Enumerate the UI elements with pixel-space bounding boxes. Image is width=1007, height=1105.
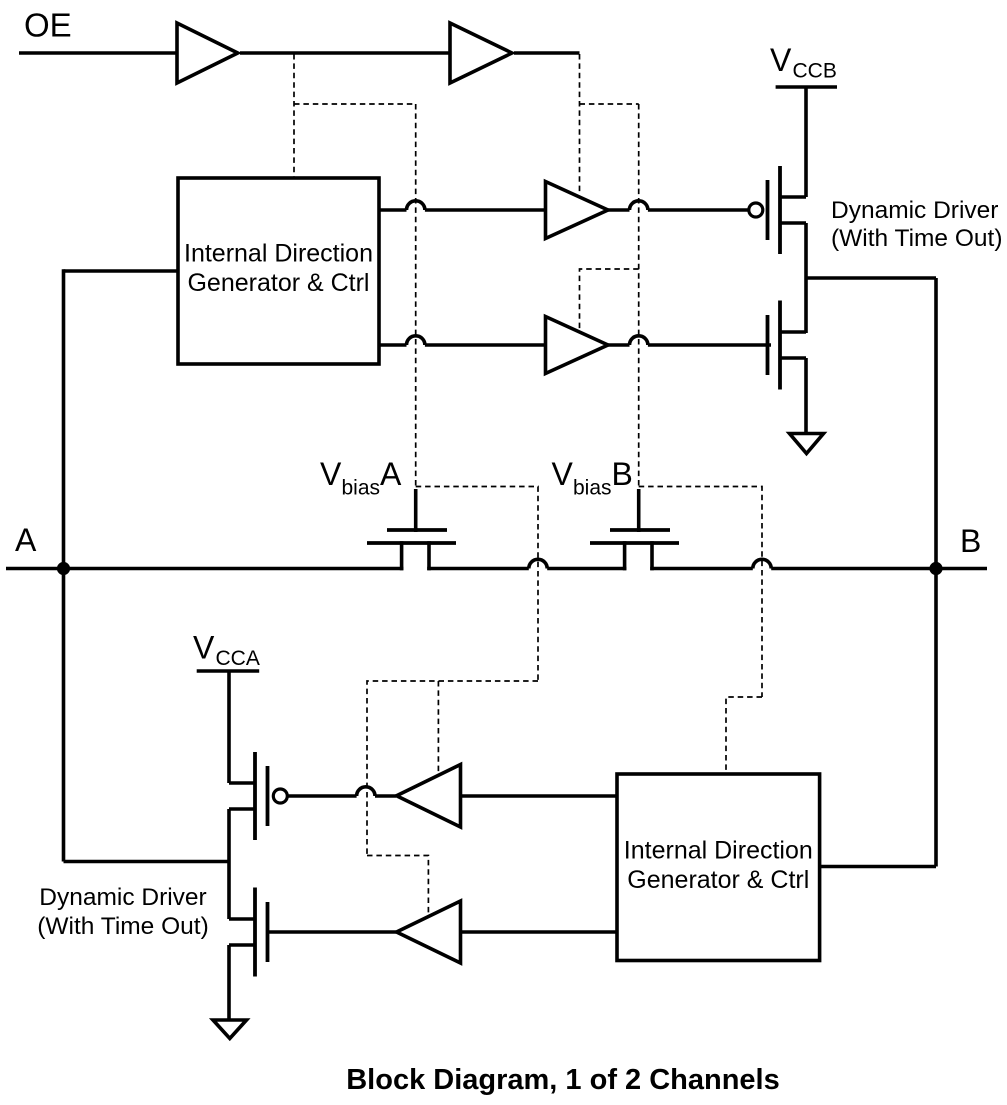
wire row1 to Q1 gate bubble bbox=[648, 208, 749, 212]
transistor Q3 PMOS (A-side pull-up) bbox=[273, 789, 287, 803]
wire A column vertical bbox=[62, 269, 66, 861]
wire Q3 gate bubble to buffer U5 bbox=[288, 794, 357, 798]
wire box2 to buffer U6 bbox=[461, 930, 618, 934]
box2 Internal Direction Generator & Ctrl (bottom-right) bbox=[617, 774, 820, 961]
buffer U4 (row2) bbox=[546, 317, 609, 374]
wire main A-B segment 4 bbox=[650, 567, 753, 571]
wire hop row1 over VbiasB column bbox=[630, 201, 648, 210]
wire row2 to Q2 gate bbox=[648, 343, 771, 347]
wire box2 to buffer U5 bbox=[461, 794, 618, 798]
wire hop row1 over VbiasA column bbox=[407, 201, 425, 210]
wire A column to mid node bbox=[64, 860, 230, 864]
dashed wire VbiasB jog down bbox=[639, 487, 762, 698]
wire main A-B segment 5 bbox=[771, 567, 987, 571]
svg-text:V: V bbox=[770, 42, 792, 78]
wire buffer2 output bbox=[514, 51, 580, 55]
wire Q3 source to mid node bbox=[227, 809, 231, 919]
wire box1 left to A column bbox=[64, 269, 179, 273]
wire box2 right to B column bbox=[820, 865, 936, 869]
wire buffer1 to buffer2 bbox=[240, 51, 450, 55]
transistor Q5 pass FET A (VbiasA) bbox=[400, 541, 404, 570]
svg-text:V: V bbox=[320, 456, 342, 492]
dashed wire to box2 top bbox=[726, 697, 762, 773]
ground (B side) bbox=[790, 434, 824, 454]
buffer U3 (row1) bbox=[546, 182, 609, 239]
svg-text:CCB: CCB bbox=[793, 60, 837, 83]
wire main A-B segment 1 bbox=[6, 567, 403, 571]
svg-text:bias: bias bbox=[573, 477, 612, 500]
box1 Internal Direction Generator & Ctrl (top-left) bbox=[178, 178, 379, 364]
transistor Q2 NMOS (B-side pull-down) bbox=[766, 315, 770, 375]
dashed wire VbiasA jog down bbox=[416, 487, 538, 682]
svg-text:Block Diagram, 1 of 2 Channels: Block Diagram, 1 of 2 Channels bbox=[346, 1064, 780, 1096]
dashed wire OE end down to buffer U3 bbox=[579, 54, 581, 194]
wire box1 row2 output bbox=[379, 343, 407, 347]
wire hop row2 over VbiasA column bbox=[407, 336, 425, 345]
dashed wire jog3 to buffers A-side bbox=[367, 681, 538, 856]
svg-text:A: A bbox=[380, 456, 402, 492]
svg-text:OE: OE bbox=[24, 7, 72, 44]
dashed wire OE to box1 top bbox=[293, 54, 295, 177]
dashed wire VbiasB column bbox=[638, 104, 640, 487]
dashed wire jog4 to buffer U6 bbox=[367, 856, 428, 916]
wire row1 to buffer U3 bbox=[425, 208, 630, 212]
wire box1 row1 output bbox=[379, 208, 407, 212]
dashed wire jog to VbiasB column bbox=[580, 103, 639, 105]
svg-text:(With Time Out): (With Time Out) bbox=[831, 225, 1003, 252]
wire OE input bbox=[19, 51, 177, 55]
svg-text:Internal Direction: Internal Direction bbox=[184, 240, 373, 268]
wire Q4 source to ground bbox=[227, 945, 231, 1021]
junction dot A bbox=[57, 562, 70, 575]
svg-text:V: V bbox=[552, 456, 574, 492]
svg-text:bias: bias bbox=[342, 477, 381, 500]
svg-text:Generator & Ctrl: Generator & Ctrl bbox=[187, 269, 369, 297]
transistor Q4 NMOS (A-side pull-down) bbox=[266, 902, 270, 962]
buffer U5 (A-side row3, points left) bbox=[397, 765, 461, 828]
wire main A-B segment 2 bbox=[427, 567, 529, 571]
wire row2 to buffer U4 bbox=[425, 343, 630, 347]
buffer U6 (A-side row4, points left) bbox=[397, 901, 461, 963]
svg-text:B: B bbox=[612, 456, 633, 492]
wire hop main over VbiasA dashed bbox=[529, 559, 547, 568]
svg-text:B: B bbox=[960, 523, 981, 559]
power VCCA rail bbox=[197, 669, 260, 673]
dashed wire VbiasA column bbox=[415, 104, 417, 487]
buffer U1 (OE first) bbox=[177, 23, 238, 83]
junction dot B bbox=[929, 562, 942, 575]
wire main A-B segment 3 bbox=[547, 567, 626, 571]
wire VCCA to Q3 drain bbox=[227, 671, 231, 783]
svg-text:CCA: CCA bbox=[216, 647, 260, 670]
wire hop row2 over VbiasB column bbox=[630, 336, 648, 345]
svg-text:Dynamic Driver: Dynamic Driver bbox=[39, 884, 206, 911]
wire Q1 source to mid node bbox=[804, 223, 808, 333]
wire Q4 gate to buffer U6 bbox=[266, 930, 396, 934]
svg-text:Internal Direction: Internal Direction bbox=[624, 837, 813, 865]
transistor Q1 PMOS (B-side pull-up) bbox=[749, 203, 763, 217]
ground (A side) bbox=[213, 1020, 247, 1039]
transistor Q6 pass FET B (VbiasB) bbox=[623, 541, 627, 570]
wire VCCB to Q1 drain bbox=[804, 87, 808, 197]
svg-text:A: A bbox=[15, 522, 37, 558]
svg-text:(With Time Out): (With Time Out) bbox=[37, 913, 209, 940]
svg-text:Generator & Ctrl: Generator & Ctrl bbox=[627, 866, 809, 894]
buffer U2 (OE second) bbox=[450, 23, 512, 83]
wire Q2 source to ground bbox=[804, 358, 808, 434]
power VCCB rail bbox=[776, 85, 837, 89]
dashed wire jog to VbiasA column bbox=[294, 103, 416, 105]
svg-text:Dynamic Driver: Dynamic Driver bbox=[831, 197, 998, 224]
wire hop Q3 gate over dashed bbox=[357, 787, 375, 796]
wire B column vertical bbox=[934, 278, 938, 867]
wire hop main over VbiasB dashed bbox=[753, 559, 771, 568]
svg-text:V: V bbox=[193, 630, 215, 666]
wire mid node to B column bbox=[806, 276, 936, 280]
dashed wire jog to buffer U4 bbox=[580, 269, 639, 330]
dashed wire to buffer U5 bbox=[437, 681, 439, 773]
